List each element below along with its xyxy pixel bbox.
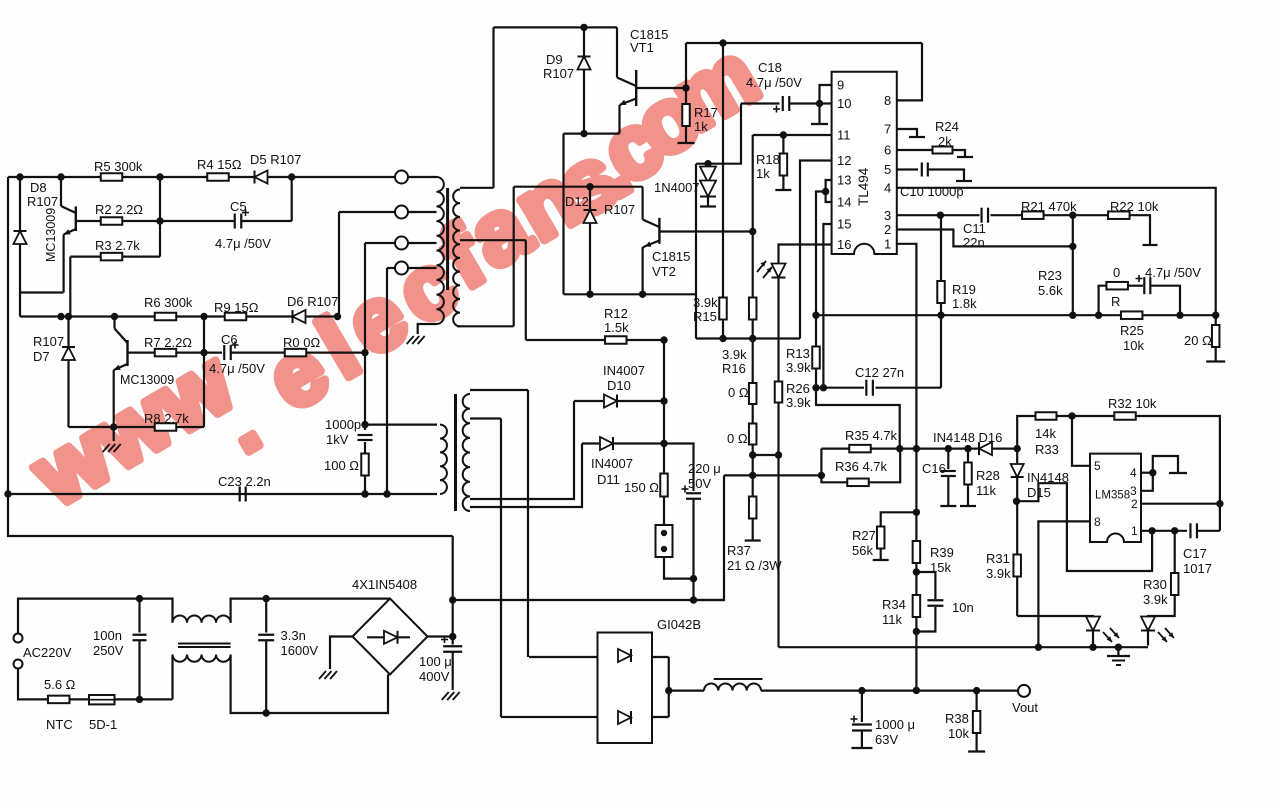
svg-text:R107: R107: [543, 66, 574, 81]
svg-text:1000p: 1000p: [325, 417, 361, 432]
svg-text:13: 13: [837, 173, 851, 188]
svg-text:3: 3: [884, 208, 891, 223]
svg-text:15k: 15k: [930, 560, 951, 575]
svg-text:D6 R107: D6 R107: [287, 294, 338, 309]
svg-text:AC220V: AC220V: [23, 645, 72, 660]
svg-text:50V: 50V: [688, 476, 711, 491]
svg-text:15: 15: [837, 217, 851, 232]
svg-text:D10: D10: [607, 378, 631, 393]
svg-text:14k: 14k: [1035, 426, 1056, 441]
svg-text:1: 1: [1131, 524, 1138, 538]
svg-text:5.6k: 5.6k: [1038, 283, 1063, 298]
svg-text:1N4007: 1N4007: [654, 180, 700, 195]
svg-text:R16: R16: [722, 361, 746, 376]
svg-text:R2 2.2Ω: R2 2.2Ω: [95, 202, 143, 217]
svg-text:R36 4.7k: R36 4.7k: [835, 459, 888, 474]
svg-text:R22 10k: R22 10k: [1110, 199, 1159, 214]
svg-text:D9: D9: [546, 52, 563, 67]
svg-text:1600V: 1600V: [281, 643, 319, 658]
svg-text:IN4007: IN4007: [591, 456, 633, 471]
svg-text:8: 8: [884, 93, 891, 108]
svg-text:C6: C6: [221, 332, 238, 347]
svg-text:Vout: Vout: [1012, 700, 1038, 715]
svg-text:C18: C18: [758, 60, 782, 75]
svg-text:9: 9: [837, 78, 844, 93]
svg-text:56k: 56k: [852, 543, 873, 558]
svg-text:4: 4: [1130, 466, 1137, 480]
svg-text:R: R: [1111, 294, 1120, 309]
svg-text:3.9k: 3.9k: [1143, 592, 1168, 607]
svg-text:IN4148: IN4148: [1027, 470, 1069, 485]
svg-text:R6 300k: R6 300k: [144, 295, 193, 310]
svg-text:2k: 2k: [938, 134, 952, 149]
svg-text:R24: R24: [935, 119, 959, 134]
svg-text:D5 R107: D5 R107: [250, 152, 301, 167]
svg-text:3.9k: 3.9k: [722, 347, 747, 362]
svg-text:1017: 1017: [1183, 561, 1212, 576]
svg-text:R21 470k: R21 470k: [1021, 199, 1077, 214]
svg-text:5: 5: [884, 162, 891, 177]
svg-text:R37: R37: [727, 543, 751, 558]
svg-text:R13: R13: [786, 346, 810, 361]
svg-text:R0 0Ω: R0 0Ω: [283, 335, 320, 350]
svg-text:1k: 1k: [694, 119, 708, 134]
svg-text:R23: R23: [1038, 268, 1062, 283]
svg-text:LM358: LM358: [1095, 490, 1130, 502]
svg-text:NTC: NTC: [46, 717, 73, 732]
svg-text:D12: D12: [565, 194, 589, 209]
svg-text:1000 μ: 1000 μ: [875, 717, 915, 732]
svg-text:C16: C16: [922, 461, 946, 476]
svg-text:10k: 10k: [948, 726, 969, 741]
svg-text:R27: R27: [852, 528, 876, 543]
svg-text:R26: R26: [786, 381, 810, 396]
svg-text:1: 1: [884, 237, 891, 252]
svg-text:6: 6: [884, 143, 891, 158]
svg-text:R107: R107: [33, 334, 64, 349]
svg-text:22n: 22n: [963, 235, 985, 250]
svg-text:IN4148 D16: IN4148 D16: [933, 430, 1002, 445]
svg-text:R9 15Ω: R9 15Ω: [214, 300, 259, 315]
svg-text:MC13009: MC13009: [44, 208, 58, 262]
svg-text:R33: R33: [1035, 442, 1059, 457]
svg-text:0 Ω: 0 Ω: [728, 385, 749, 400]
svg-text:R34: R34: [882, 597, 906, 612]
svg-text:21 Ω /3W: 21 Ω /3W: [727, 558, 782, 573]
svg-text:R19: R19: [952, 282, 976, 297]
svg-text:0 Ω: 0 Ω: [727, 431, 748, 446]
svg-text:R4 15Ω: R4 15Ω: [197, 157, 242, 172]
svg-text:100 μ: 100 μ: [419, 654, 452, 669]
svg-text:5: 5: [1094, 459, 1101, 473]
svg-text:4.7μ /50V: 4.7μ /50V: [1145, 265, 1201, 280]
svg-text:1kV: 1kV: [326, 432, 349, 447]
svg-text:D7: D7: [33, 349, 50, 364]
svg-text:TL494: TL494: [856, 167, 871, 206]
svg-text:3.9k: 3.9k: [786, 395, 811, 410]
svg-text:IN4007: IN4007: [603, 363, 645, 378]
svg-text:R12: R12: [604, 306, 628, 321]
svg-text:R32 10k: R32 10k: [1108, 396, 1157, 411]
svg-text:100 Ω: 100 Ω: [324, 458, 359, 473]
svg-text:R31: R31: [986, 551, 1010, 566]
svg-text:4X1IN5408: 4X1IN5408: [352, 577, 417, 592]
svg-text:4: 4: [884, 181, 891, 196]
svg-text:400V: 400V: [419, 669, 450, 684]
svg-text:R8 2.7k: R8 2.7k: [144, 411, 189, 426]
svg-text:R25: R25: [1120, 323, 1144, 338]
svg-text:5D-1: 5D-1: [89, 717, 117, 732]
svg-text:14: 14: [837, 195, 851, 210]
svg-text:0: 0: [1113, 265, 1120, 280]
svg-text:R28: R28: [976, 468, 1000, 483]
svg-text:11: 11: [837, 128, 851, 143]
svg-text:11k: 11k: [976, 483, 996, 498]
svg-text:3.3n: 3.3n: [281, 628, 306, 643]
svg-text:C17: C17: [1183, 546, 1207, 561]
svg-text:3.9k: 3.9k: [986, 566, 1011, 581]
svg-text:63V: 63V: [875, 732, 898, 747]
svg-text:16: 16: [837, 237, 851, 252]
svg-text:C10 1000p: C10 1000p: [900, 184, 964, 199]
svg-text:R18: R18: [756, 152, 780, 167]
svg-text:11k: 11k: [882, 612, 902, 627]
svg-text:220 μ: 220 μ: [688, 461, 721, 476]
svg-text:4.7μ /50V: 4.7μ /50V: [746, 75, 802, 90]
svg-text:GI042B: GI042B: [657, 617, 701, 632]
svg-text:10k: 10k: [1123, 338, 1144, 353]
svg-text:4.7μ /50V: 4.7μ /50V: [209, 361, 265, 376]
svg-text:5.6 Ω: 5.6 Ω: [44, 677, 76, 692]
svg-text:8: 8: [1094, 515, 1101, 529]
svg-text:150 Ω: 150 Ω: [624, 480, 659, 495]
svg-text:R15: R15: [693, 309, 717, 324]
svg-text:3.9k: 3.9k: [693, 295, 718, 310]
svg-text:C11: C11: [963, 221, 986, 236]
svg-text:1k: 1k: [756, 166, 770, 181]
svg-text:VT1: VT1: [630, 40, 654, 55]
svg-text:20 Ω: 20 Ω: [1184, 333, 1212, 348]
svg-text:10n: 10n: [952, 600, 974, 615]
svg-text:MC13009: MC13009: [120, 373, 174, 387]
svg-text:C1815: C1815: [652, 249, 690, 264]
svg-text:250V: 250V: [93, 643, 124, 658]
svg-text:R107: R107: [27, 194, 58, 209]
svg-text:3: 3: [1130, 484, 1137, 498]
svg-text:D11: D11: [597, 472, 620, 487]
svg-text:R39: R39: [930, 545, 954, 560]
svg-text:D15: D15: [1027, 485, 1051, 500]
svg-text:3.9k: 3.9k: [786, 360, 811, 375]
svg-text:VT2: VT2: [652, 264, 676, 279]
svg-text:D8: D8: [30, 180, 47, 195]
svg-text:1.5k: 1.5k: [604, 320, 629, 335]
svg-text:R7 2.2Ω: R7 2.2Ω: [144, 335, 192, 350]
svg-text:R17: R17: [694, 105, 718, 120]
svg-text:2: 2: [1131, 497, 1138, 511]
svg-text:4.7μ /50V: 4.7μ /50V: [215, 236, 271, 251]
svg-text:R107: R107: [604, 202, 635, 217]
svg-text:2: 2: [884, 222, 891, 237]
svg-text:100n: 100n: [93, 628, 122, 643]
svg-text:1.8k: 1.8k: [952, 296, 977, 311]
svg-text:7: 7: [884, 122, 891, 137]
svg-text:C23 2.2n: C23 2.2n: [218, 474, 271, 489]
svg-text:R3 2.7k: R3 2.7k: [95, 238, 140, 253]
svg-text:10: 10: [837, 96, 851, 111]
svg-text:12: 12: [837, 153, 851, 168]
svg-text:C5: C5: [230, 199, 247, 214]
svg-text:R30: R30: [1143, 577, 1167, 592]
svg-text:C12 27n: C12 27n: [855, 365, 904, 380]
svg-text:R35 4.7k: R35 4.7k: [845, 428, 898, 443]
svg-text:R5 300k: R5 300k: [94, 159, 143, 174]
svg-text:R38: R38: [945, 711, 969, 726]
